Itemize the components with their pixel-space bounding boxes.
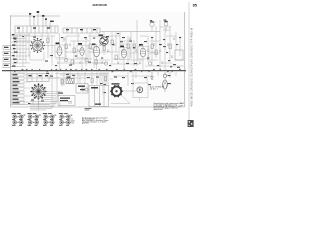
svg-text:gesehen: gesehen [82,123,89,125]
svg-text:4035 W/3D GRUNDIG: 4035 W/3D GRUNDIG [189,78,193,107]
svg-text:0,25: 0,25 [71,122,75,124]
svg-text:a-c: a-c [181,105,184,107]
svg-text:SCHALTPLAN GRUNDIG TYP 4035 W: SCHALTPLAN GRUNDIG TYP 4035 W [189,27,193,77]
svg-text:4035W/3D: 4035W/3D [92,3,108,7]
svg-text:ab Ser. 7: ab Ser. 7 [150,87,158,90]
svg-text:gemessen.: gemessen. [154,109,164,111]
